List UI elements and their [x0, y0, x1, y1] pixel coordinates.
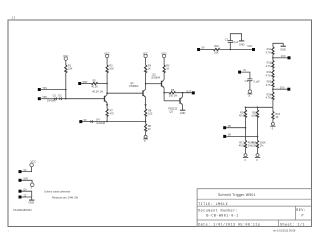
resistor R6 — [163, 64, 170, 73]
wire D4 to rail — [93, 121, 108, 123]
resistor R8 below rail — [145, 124, 152, 132]
port IN+ — [223, 125, 231, 129]
VCC symbol fourth column — [161, 53, 166, 61]
svg-text:1N4148: 1N4148 — [47, 100, 56, 103]
svg-text:.,.: .,. — [7, 229, 9, 232]
resistor R16 — [239, 110, 247, 118]
svg-text:Sheet: 1/1: Sheet: 1/1 — [280, 222, 305, 227]
svg-text:1N4148: 1N4148 — [96, 122, 105, 125]
wire Q4 emitter to gnd — [182, 105, 184, 110]
svg-text:2V9: 2V9 — [281, 55, 286, 58]
svg-text:10K: 10K — [68, 68, 73, 71]
svg-text:OUT: OUT — [186, 90, 192, 93]
node rail b2 — [257, 107, 259, 109]
svg-text:1K: 1K — [166, 68, 169, 71]
legend port 5V — [19, 169, 27, 173]
wire R15 to agnd — [272, 119, 274, 122]
svg-text:Schmitt Trigger W901: Schmitt Trigger W901 — [218, 193, 256, 197]
svg-text:40.2K 1%: 40.2K 1% — [92, 90, 104, 93]
svg-text:10K: 10K — [109, 68, 114, 71]
wire Q1 collector node to Q2 base — [107, 92, 142, 94]
svg-text:4.7K: 4.7K — [266, 97, 271, 100]
node rail b1 — [245, 107, 247, 109]
svg-text:Date: 1/01/2013 05:08:11p: Date: 1/01/2013 05:08:11p — [198, 222, 260, 227]
svg-text:1K: 1K — [275, 116, 278, 119]
wire R18 to node E — [257, 118, 259, 141]
legend port 5V0 — [19, 178, 29, 182]
VCC symbol third column — [143, 53, 148, 61]
svg-text:10K: 10K — [214, 51, 219, 54]
svg-text:0.1uF: 0.1uF — [253, 80, 260, 83]
node rail-R8 junction — [145, 121, 147, 123]
resistor R7 — [106, 109, 114, 117]
svg-text:R10: R10 — [214, 45, 219, 48]
svg-text:GND: GND — [180, 112, 186, 115]
svg-text:VCC: VCC — [63, 55, 68, 58]
legend vcc symbol — [30, 161, 36, 167]
diode D2 — [58, 94, 62, 100]
bottom rail wire — [246, 106, 273, 108]
transistor Q1 — [105, 95, 108, 103]
svg-text:TITLE: LM6LX: TITLE: LM6LX — [198, 203, 228, 207]
chain top node wire to gnd — [273, 43, 283, 47]
wire C1 branch up — [229, 42, 231, 49]
wire R10 to VCC port — [220, 49, 253, 51]
svg-text:2N3904: 2N3904 — [151, 76, 160, 79]
svg-text:49.9K: 49.9K — [239, 145, 246, 148]
wire R8 to agnd — [145, 132, 147, 136]
wire IN+ to node D — [226, 127, 245, 129]
wire C1 top loop to gnd — [230, 34, 241, 41]
node B junction — [65, 98, 67, 100]
port IN bypass — [238, 69, 246, 73]
resistor R10 — [213, 45, 219, 54]
title block row divider 3 — [197, 219, 311, 221]
svg-text:40.2K: 40.2K — [91, 85, 98, 88]
resistor R5 — [169, 89, 178, 98]
wire VCC4 to R6 — [163, 61, 165, 66]
wire R13 to R20 — [272, 78, 274, 80]
wire R11 to tap1 — [272, 55, 274, 61]
svg-text:VCC: VCC — [247, 45, 252, 48]
node E junction — [257, 136, 259, 138]
wire R2 to VCC2 column — [97, 83, 107, 85]
svg-text:100: 100 — [148, 113, 153, 116]
legend wire to gnd — [22, 197, 32, 200]
title block row divider 1 — [197, 198, 311, 200]
svg-text:Resistors are 1/4W, 5%: Resistors are 1/4W, 5% — [52, 197, 79, 200]
node A junction — [65, 89, 67, 91]
resistor R2 — [91, 80, 104, 94]
wire Q3 emitter node to Q4 base — [164, 100, 179, 102]
agnd branch2 — [255, 154, 260, 163]
svg-text:GND: GND — [239, 43, 245, 46]
resistor R3 — [106, 64, 114, 73]
title block outer box — [197, 189, 311, 227]
port 5V — [197, 47, 205, 51]
node rail junction — [106, 121, 108, 123]
node Q2 collector tap for Q3 base — [145, 83, 147, 85]
wire C4 to agnd — [249, 81, 251, 90]
emitter rail wire — [107, 120, 146, 122]
wire R19 to agnd — [257, 148, 259, 154]
port THR — [79, 119, 87, 123]
resistor R18 — [251, 110, 258, 118]
node Q1 collector to Q2 base junction — [106, 92, 108, 94]
svg-text:PN3904: PN3904 — [129, 85, 139, 88]
svg-text:470: 470 — [110, 113, 115, 116]
wire IN- to node E — [226, 135, 257, 137]
resistor R17 — [239, 140, 255, 148]
transistor Q4 — [168, 97, 183, 114]
VCC symbol second column — [104, 53, 109, 61]
resistor R12 — [266, 60, 274, 68]
agnd branch1 — [243, 154, 248, 163]
title block sheet divider — [277, 220, 279, 227]
svg-text:GND: GND — [29, 202, 35, 205]
wire IN port to C4 — [241, 72, 250, 79]
branch3 wire down — [272, 107, 274, 111]
ground C1 — [239, 41, 245, 46]
wire Q4 collector to out node — [182, 93, 184, 97]
svg-text:4.7K: 4.7K — [266, 65, 271, 68]
svg-text:Unless noted otherwise: Unless noted otherwise — [44, 191, 71, 194]
wire rail to R8 — [145, 121, 147, 123]
capacitor C1 — [225, 38, 239, 44]
wire Q1 emitter to R7 — [106, 103, 108, 109]
capacitor C4 — [245, 79, 261, 83]
svg-text:100 1%: 100 1% — [169, 94, 178, 97]
resistor R1 — [65, 64, 73, 73]
svg-text:49.9K: 49.9K — [239, 115, 246, 118]
title block rev divider — [294, 206, 296, 220]
wire RST to R2 — [81, 83, 91, 85]
resistor R19 — [251, 140, 266, 148]
legend port 0V — [19, 189, 27, 193]
resistor R15 — [272, 111, 281, 119]
resistor R20 — [266, 79, 274, 87]
legend wire to agnd — [22, 180, 33, 183]
svg-text:4.7K: 4.7K — [266, 84, 271, 87]
title block row divider 2 — [197, 205, 311, 207]
emitter arrow Q2 — [144, 104, 146, 106]
wire R12 to R13 — [272, 68, 274, 70]
resistor R9 emitter — [145, 109, 153, 117]
port OUT — [186, 90, 195, 94]
svg-text:GND: GND — [280, 48, 286, 51]
VCC symbol left column — [63, 55, 68, 63]
wire R3 to Q1 collector — [106, 73, 108, 95]
port 2V9 — [281, 55, 291, 59]
wire Q2 emitter down — [145, 97, 147, 108]
svg-text:4.7K: 4.7K — [266, 74, 271, 77]
legend wire 0V elbow — [22, 191, 32, 197]
legend wire to vcc — [22, 167, 32, 172]
diode D1 — [47, 94, 57, 102]
node D junction — [245, 127, 247, 129]
port TP1 — [38, 87, 48, 91]
port TP2 — [38, 96, 48, 100]
wire R9 to rail — [145, 117, 147, 122]
wire 5V to R10 — [200, 49, 213, 51]
node tap1 junction — [272, 57, 274, 59]
agnd circle symbol — [143, 135, 148, 143]
wire D2 to Q1 base — [62, 98, 105, 100]
legend agnd circle symbol — [30, 183, 34, 190]
wire VCC to R1 — [65, 63, 67, 65]
svg-text:rev 1/01/2013 05:08: rev 1/01/2013 05:08 — [273, 230, 296, 233]
wire TP2 to diode D1 — [41, 98, 54, 100]
svg-text:1K: 1K — [148, 128, 151, 131]
ground chain top — [280, 46, 286, 51]
svg-text:REV:: REV: — [296, 209, 306, 213]
port RST — [78, 81, 88, 85]
wire R14 to bottom rail — [272, 100, 274, 108]
ground Q4 — [180, 110, 186, 115]
node Q4 collector junction — [182, 92, 184, 94]
sheet border frame — [8, 20, 312, 227]
wire R17 to agnd — [245, 148, 247, 154]
svg-text:.1 2: .1 2 — [11, 17, 16, 20]
branch1 wire down — [245, 107, 247, 110]
wire R1 to node B — [65, 73, 67, 99]
svg-text:2V0: 2V0 — [280, 86, 285, 89]
wire tap2 to port 2V0 — [273, 88, 287, 90]
wire Q3 emitter down to out node — [163, 88, 165, 101]
svg-text:100K: 100K — [251, 115, 257, 118]
wire R6 to Q3 collector — [163, 73, 165, 80]
svg-text:B-CB-W901-0-1: B-CB-W901-0-1 — [206, 215, 238, 219]
node tap2 junction — [272, 88, 274, 90]
emitter arrow Q1 — [106, 104, 108, 106]
wire VCC2 to R3 — [106, 61, 108, 66]
wire VCC3 to R4 — [145, 61, 147, 66]
svg-text:1K: 1K — [148, 68, 151, 71]
svg-text:0.1uF: 0.1uF — [232, 41, 239, 44]
node R2-column junction — [106, 83, 108, 85]
svg-text:P: P — [302, 215, 305, 219]
wire D1 to D2 — [57, 98, 60, 100]
port VCC — [247, 45, 255, 51]
resistor R4 — [145, 64, 152, 73]
port IN- — [223, 134, 231, 138]
branch2 wire down — [257, 107, 259, 110]
resistor R11 — [266, 47, 274, 55]
wire R7 to emitter rail — [106, 117, 108, 122]
wire R16 to node D — [245, 118, 247, 141]
transistor Q2 — [129, 82, 145, 98]
wire Q2 collector up — [145, 73, 147, 89]
wire node to R5 — [164, 92, 169, 94]
resistor R14 — [266, 92, 274, 100]
agnd branch3 — [270, 122, 275, 130]
wire R20 to tap2 — [272, 87, 274, 92]
node Q3 emitter / R5 junction — [163, 92, 165, 94]
wire tap1 to port 2V9 — [273, 57, 288, 59]
agnd circle C4 — [248, 90, 253, 98]
svg-text:CS-W901B.DSN: CS-W901B.DSN — [13, 209, 32, 212]
transistor Q3 — [151, 73, 164, 88]
svg-text:4.7K: 4.7K — [266, 51, 271, 54]
wire THR to D4 — [82, 121, 90, 123]
legend port 22 — [19, 194, 27, 198]
svg-text:Document Number:: Document Number: — [198, 208, 238, 213]
resistor R13 — [266, 70, 274, 78]
legend gnd symbol — [29, 200, 35, 205]
svg-text:100K: 100K — [251, 145, 257, 148]
wire R5 to OUT port — [175, 92, 192, 94]
wire Q2 collector tap to Q3 base — [146, 83, 161, 85]
wire TP1 to node A — [41, 89, 66, 91]
node C1 tap junction — [230, 49, 232, 51]
diode D4 — [90, 119, 105, 125]
port 2V0 — [280, 86, 290, 90]
